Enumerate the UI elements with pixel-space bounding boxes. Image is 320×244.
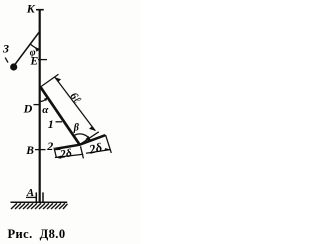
svg-text:6ℓ: 6ℓ: [67, 90, 83, 106]
string to ball: [14, 31, 40, 66]
6l dimension: upper extension line: [40, 74, 58, 87]
2b dimension line left segment: [55, 154, 83, 157]
2b dimension line right segment: [86, 150, 111, 154]
6l upper arrowhead: [55, 77, 61, 82]
svg-text:2: 2: [46, 139, 53, 153]
angle beta arc: [73, 134, 90, 141]
leader dash from 3 to ball: [5, 58, 8, 63]
rod 1 (thick, from D down-right): [40, 87, 80, 145]
svg-text:B: B: [25, 145, 34, 157]
svg-text:2δ: 2δ: [87, 140, 104, 157]
2 leader dash: [54, 148, 61, 150]
beam rod 2 (main line): [55, 135, 105, 149]
svg-text:E: E: [30, 56, 39, 68]
angle phi arc: [30, 44, 40, 49]
svg-text:2δ: 2δ: [58, 147, 72, 161]
2b dim left arrowhead: [55, 156, 61, 159]
ground line: [11, 201, 68, 203]
svg-text:3: 3: [2, 42, 9, 56]
svg-text:α: α: [42, 104, 49, 116]
B tick on shaft: [35, 149, 46, 151]
D leader dash: [34, 104, 40, 106]
bottom bearing socket right wall: [42, 192, 44, 202]
bottom bearing socket left wall: [35, 192, 37, 202]
ground hatching: [11, 203, 68, 209]
svg-text:β: β: [73, 123, 80, 134]
A leader dash: [26, 196, 36, 198]
E tick on shaft: [38, 59, 47, 61]
beta arc arrowhead: [85, 136, 91, 142]
alpha arc arrowhead: [44, 98, 48, 102]
6l lower arrowhead: [89, 126, 95, 131]
angle alpha arc: [40, 98, 48, 102]
2b dim right arrowhead: [104, 148, 110, 151]
shaft AK (vertical post): [39, 10, 41, 203]
divider tick below joint: [81, 146, 84, 158]
top bearing cap at K: [36, 9, 44, 11]
ball (weight 3): [10, 63, 17, 70]
phi arc arrowhead: [35, 48, 40, 52]
beam left end cap: [54, 148, 56, 158]
beam right end cap / extension: [106, 135, 112, 153]
svg-text:1: 1: [48, 117, 54, 131]
6l dimension line: [55, 77, 95, 131]
svg-text:Рис. Д8.0: Рис. Д8.0: [8, 227, 66, 241]
6l dimension: lower extension line: [80, 132, 99, 145]
svg-text:D: D: [23, 102, 33, 116]
1 leader dash: [56, 121, 63, 123]
svg-text:K: K: [26, 2, 36, 16]
